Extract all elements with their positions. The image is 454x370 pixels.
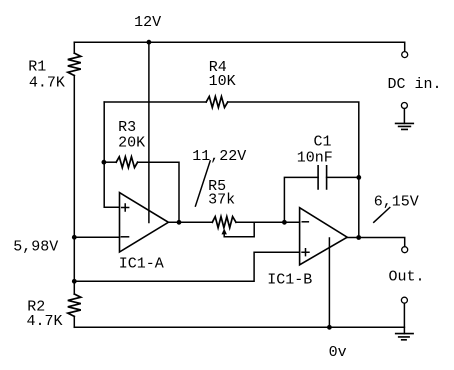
svg-text:10nF: 10nF — [297, 150, 333, 167]
wire bottom 0v rail — [74, 326, 404, 328]
pin minus IC1-A — [121, 236, 130, 238]
wire left rail lower — [73, 316, 75, 327]
svg-text:C1: C1 — [314, 134, 332, 151]
wire plus input IC1-B return — [74, 252, 299, 281]
wire C1 right — [327, 176, 359, 178]
svg-text:DC in.: DC in. — [388, 76, 442, 93]
node C1 right — [356, 175, 361, 180]
wire mid horizontal right — [228, 102, 359, 238]
svg-text:0v: 0v — [329, 344, 347, 361]
svg-text:12V: 12V — [134, 14, 161, 31]
resistor R4 — [206, 97, 228, 108]
resistor R5 — [212, 217, 236, 228]
op-amp U1 IC1-A — [120, 193, 169, 252]
node R3 left — [102, 160, 107, 165]
ground top terminal circle — [401, 103, 407, 109]
svg-text:11,22V: 11,22V — [192, 148, 246, 165]
wire sub rail to +A input — [104, 102, 119, 207]
wire C1 left branch — [284, 177, 318, 222]
wire left rail upper — [73, 42, 75, 53]
svg-text:20K: 20K — [118, 134, 145, 151]
svg-text:IC1-A: IC1-A — [119, 256, 164, 273]
node IC1-B output — [356, 235, 361, 240]
svg-text:Out.: Out. — [389, 268, 425, 285]
wire IC1-A out to IC1-B minus — [236, 221, 300, 223]
ground top — [403, 109, 405, 124]
wiper arrow R5 — [222, 228, 227, 234]
wire R3 right feedback — [138, 162, 179, 222]
ground bottom terminal circle — [401, 297, 407, 303]
callout line 6,15V — [373, 207, 390, 223]
resistor R3 — [116, 157, 137, 168]
svg-text:37k: 37k — [208, 192, 235, 209]
svg-text:R1: R1 — [28, 59, 46, 76]
wire 12V stub to IC1-A — [148, 42, 150, 222]
wire IC1-B ground stub — [328, 238, 330, 327]
capacitor C1 — [318, 165, 327, 190]
wire left rail middle — [73, 76, 75, 295]
pin minus IC1-B — [302, 221, 310, 223]
node 12V junction — [147, 40, 152, 45]
svg-text:6,15V: 6,15V — [374, 194, 419, 211]
op-amp U2 IC1-B — [300, 208, 348, 265]
node minus B — [282, 220, 287, 225]
terminal Out — [402, 247, 408, 253]
wire mid horizontal left — [104, 101, 206, 103]
svg-text:4.7K: 4.7K — [27, 313, 63, 330]
wire R3 left — [104, 161, 116, 163]
wire minus input IC1-A — [74, 236, 119, 238]
node minus input rail — [72, 235, 77, 240]
wire IC1-B output — [347, 238, 405, 247]
ground bottom — [403, 303, 405, 333]
pin plus IC1-B — [301, 248, 309, 256]
pin plus IC1-A — [121, 203, 129, 211]
node IC1-A output — [177, 220, 182, 225]
svg-text:IC1-B: IC1-B — [267, 272, 312, 289]
svg-text:R3: R3 — [118, 119, 136, 136]
node plus return rail — [72, 279, 77, 284]
svg-text:10K: 10K — [209, 73, 236, 90]
svg-text:4.7K: 4.7K — [29, 74, 65, 91]
node ground stub — [327, 325, 332, 330]
svg-text:5,98V: 5,98V — [13, 238, 58, 255]
resistor R1 — [68, 53, 81, 75]
wire IC1-A output — [168, 221, 212, 223]
callout line 11,22V — [195, 160, 210, 207]
terminal DC in — [402, 52, 408, 58]
wire top 12V rail — [74, 42, 404, 51]
resistor R2 — [68, 294, 81, 316]
